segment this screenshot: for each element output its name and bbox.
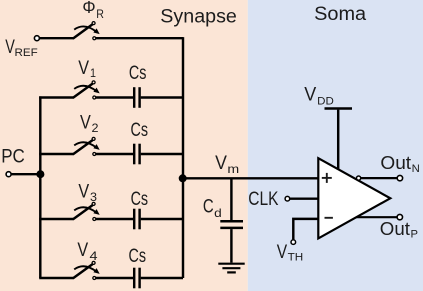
junction PC node <box>36 170 44 178</box>
svg-text:V: V <box>5 36 15 58</box>
svg-text:Synapse: Synapse <box>160 5 237 27</box>
wire CLK to comparator <box>290 197 319 199</box>
switch V4 <box>73 261 99 279</box>
terminal V_TH <box>291 240 296 245</box>
power rail V_DD <box>325 107 353 109</box>
label V_REF <box>5 36 38 59</box>
wire V_TH to comparator minus input <box>293 219 319 240</box>
capacitor Cs row4 <box>134 268 139 289</box>
switch phi_R <box>73 22 99 40</box>
switch V3 <box>73 202 99 220</box>
wire row4 left <box>39 277 73 279</box>
synapse background region <box>0 0 248 291</box>
op-amp comparator U1 <box>318 158 390 238</box>
wire Out_N <box>359 177 397 179</box>
soma background region <box>248 0 423 291</box>
capacitor Cs row2 <box>134 144 139 165</box>
svg-text:m: m <box>227 162 239 176</box>
svg-text:1: 1 <box>90 66 96 80</box>
wire C_d to ground <box>230 229 232 263</box>
wire V_DD to comparator <box>337 110 339 171</box>
svg-text:Φ: Φ <box>82 0 95 17</box>
svg-text:V: V <box>215 152 227 174</box>
svg-text:Out: Out <box>380 153 411 173</box>
wire V_REF to switch phi_R <box>40 37 74 39</box>
label V1 <box>78 57 96 80</box>
left bus wire <box>39 96 41 278</box>
label Out_P <box>380 219 418 241</box>
wire row3 left <box>39 218 73 220</box>
wire row2 left <box>39 153 73 155</box>
wire row3 right <box>141 218 183 220</box>
terminal PC <box>6 172 11 177</box>
wire row2 mid <box>96 153 133 155</box>
svg-text:N: N <box>412 163 420 175</box>
svg-text:V: V <box>304 84 316 106</box>
wire V_m node to comparator <box>183 177 319 179</box>
terminal Out_N <box>397 175 402 180</box>
svg-text:Soma: Soma <box>314 3 366 25</box>
svg-text:P: P <box>411 229 419 241</box>
svg-text:Cs: Cs <box>131 188 149 210</box>
svg-text:DD: DD <box>317 95 334 107</box>
svg-text:C: C <box>203 196 214 218</box>
right bus wire <box>182 37 184 278</box>
svg-text:V: V <box>78 57 89 79</box>
wire row2 right <box>141 153 183 155</box>
svg-text:V: V <box>277 241 287 263</box>
capacitor Cs row1 <box>134 87 139 108</box>
plus input mark <box>322 173 332 183</box>
svg-text:4: 4 <box>90 249 99 263</box>
terminal CLK <box>285 196 290 201</box>
label phi_R <box>82 0 104 21</box>
wire row1 left <box>39 96 73 98</box>
label Out_N <box>380 153 419 175</box>
wire PC to left bus <box>12 173 41 175</box>
svg-text:Cs: Cs <box>129 62 147 84</box>
svg-text:Out: Out <box>380 219 410 239</box>
switch V1 <box>73 81 99 99</box>
ground <box>218 264 244 273</box>
svg-text:V: V <box>77 239 88 261</box>
terminal Out_P <box>397 214 402 219</box>
wire Out_P <box>356 216 397 218</box>
wire row3 mid <box>96 218 133 220</box>
wire row1 mid <box>96 96 133 98</box>
label V_DD <box>304 84 334 108</box>
svg-text:R: R <box>96 7 104 21</box>
capacitor C_d <box>220 221 243 228</box>
svg-text:2: 2 <box>92 121 99 135</box>
label C_d <box>203 196 222 221</box>
label V_m <box>215 152 239 176</box>
label V2 <box>80 112 99 135</box>
svg-text:V: V <box>78 180 89 202</box>
svg-text:CLK: CLK <box>248 188 278 210</box>
svg-text:Cs: Cs <box>129 245 147 267</box>
switch V2 <box>73 137 99 155</box>
terminal V_REF <box>34 36 39 41</box>
capacitor Cs row3 <box>134 209 139 230</box>
svg-text:Cs: Cs <box>131 119 149 141</box>
wire row4 right <box>141 277 183 279</box>
wire switch phi_R to right bus <box>96 37 183 39</box>
svg-text:d: d <box>214 206 222 220</box>
svg-text:REF: REF <box>15 47 38 59</box>
label V_TH <box>277 241 304 263</box>
wire row1 right <box>141 96 183 98</box>
label V3 <box>78 180 97 204</box>
label V4 <box>77 239 98 263</box>
minus input mark <box>325 217 333 219</box>
inversion bubble Out_N <box>357 176 361 180</box>
svg-text:PC: PC <box>1 145 25 167</box>
junction V_m node <box>179 174 187 182</box>
wire row4 mid <box>96 277 133 279</box>
svg-text:V: V <box>80 112 91 134</box>
wire V_m to C_d <box>230 178 232 220</box>
svg-text:TH: TH <box>288 251 304 263</box>
